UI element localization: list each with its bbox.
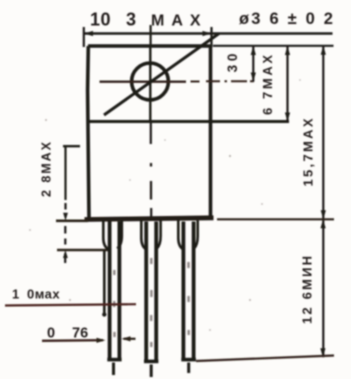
tab/body divider line with extension to 6.7 dimension	[88, 120, 289, 123]
arrow 10.3 left	[84, 31, 93, 36]
mounting hole	[132, 63, 169, 100]
inner smudges	[113, 270, 116, 337]
body bottom edge (seating plane)	[85, 218, 214, 220]
lead 1 (left)	[102, 221, 122, 376]
dimension line 6.7max (tab height)	[286, 46, 288, 122]
svg-text:12 6МИН: 12 6МИН	[300, 256, 315, 324]
hole horizontal centerline	[100, 80, 187, 82]
vertical centerline of package	[150, 25, 152, 46]
extension line right tab corner	[210, 27, 212, 47]
paper speckles	[29, 79, 301, 331]
lead 2 (middle)	[141, 221, 160, 378]
package tab outline (TO-220 flange)	[88, 46, 211, 219]
arrows 2.8	[63, 213, 68, 221]
extension line at lead tips right	[196, 356, 334, 362]
extension line tab top to right dims	[213, 45, 334, 47]
dimension line vertical with dash-dot	[64, 147, 66, 200]
1.0max extension line with arrow blob	[103, 251, 106, 314]
extension shoulder line	[57, 249, 110, 251]
top bar	[63, 145, 80, 147]
svg-text:3 0: 3 0	[225, 54, 240, 73]
arrow 10.3 right	[203, 31, 212, 36]
dimension line 3.0 (hole center to tab top)	[252, 46, 254, 82]
top dimension line 10.3 and leader underline	[84, 32, 333, 35]
extension line left tab corner	[83, 27, 85, 47]
lead 3 (right)	[178, 221, 197, 374]
extension line at seating plane right	[217, 218, 334, 220]
svg-text:ø3 6 ± 0 2: ø3 6 ± 0 2	[239, 10, 335, 28]
svg-text:10мах: 10мах	[12, 287, 60, 302]
extension seating plane left	[56, 220, 88, 223]
diagonal leader line from hole to dia label	[104, 34, 219, 116]
svg-text:2 8МАХ: 2 8МАХ	[40, 141, 54, 197]
svg-text:6 7МАХ: 6 7МАХ	[260, 55, 275, 115]
right chained dimension line 15.7max / 12.6min	[322, 46, 324, 358]
